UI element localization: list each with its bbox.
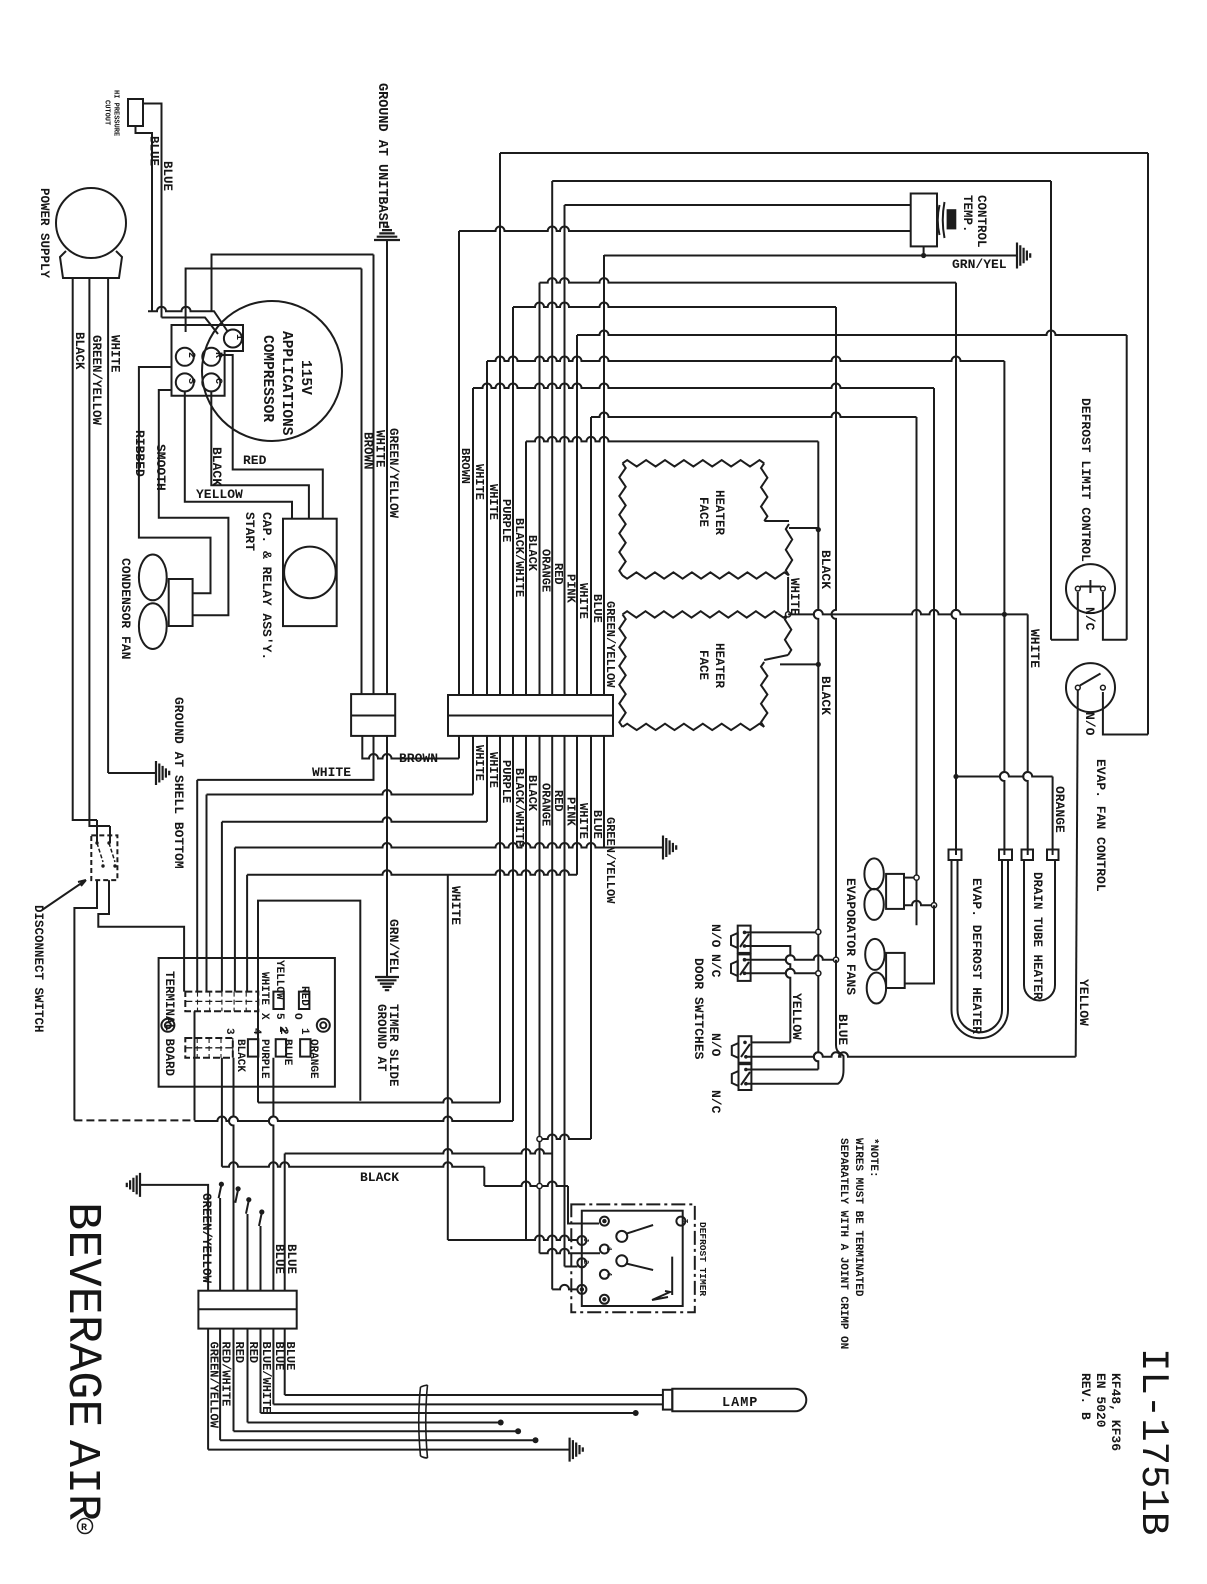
wire green/yellow bus xyxy=(603,255,605,695)
timer terminal 4 xyxy=(600,1270,609,1279)
row pink to timer 2 xyxy=(565,1266,578,1268)
terminal 1 xyxy=(224,330,242,348)
svg-text:HEATER: HEATER xyxy=(712,643,726,689)
harness line red 1 xyxy=(234,1430,516,1432)
svg-text:1: 1 xyxy=(298,1028,310,1035)
wire blue A to compressor terminal 1 xyxy=(148,307,228,332)
wire brown bus riser xyxy=(458,736,460,759)
rail blue xyxy=(591,413,917,418)
lamp body xyxy=(672,1389,806,1412)
svg-text:WHITE: WHITE xyxy=(312,765,351,780)
svg-text:N/C: N/C xyxy=(708,954,723,978)
compressor terminal box xyxy=(172,325,244,396)
wire white bus 2 xyxy=(486,361,488,695)
wire white1 below xyxy=(472,736,474,795)
temp control sensor xyxy=(938,202,945,238)
terminal S xyxy=(176,373,194,391)
evap defrost heater terminals xyxy=(949,850,962,861)
row D ground arm xyxy=(604,847,663,849)
power supply plug xyxy=(56,188,126,258)
svg-text:RED: RED xyxy=(551,790,565,812)
wire brown compressor-2 row xyxy=(186,269,362,333)
row white/black to timer J xyxy=(448,1236,578,1240)
svg-text:N/O: N/O xyxy=(708,1033,723,1057)
compressor circle xyxy=(202,301,342,441)
disconnect switch arrow xyxy=(42,880,86,910)
svg-text:BLACK: BLACK xyxy=(525,775,539,812)
N/C switch xyxy=(1066,564,1115,613)
svg-text:BLUE: BLUE xyxy=(281,1039,293,1066)
terminal C xyxy=(202,373,220,391)
wire green/yellow timer slide xyxy=(386,736,388,977)
svg-text:SMOOTH: SMOOTH xyxy=(153,444,168,491)
wire red from R to cap xyxy=(220,355,323,519)
svg-text:HEATER: HEATER xyxy=(712,490,726,536)
row D green/yellow to ground xyxy=(235,843,604,848)
timer terminal T xyxy=(676,1217,685,1226)
ground symbol shell bottom xyxy=(156,761,169,785)
wire blue A from cutout xyxy=(136,126,153,311)
defrost timer inner box xyxy=(582,1211,683,1306)
svg-text:RED: RED xyxy=(298,986,310,1006)
svg-text:WHITE: WHITE xyxy=(472,464,486,500)
harness wire RED xyxy=(233,1329,235,1432)
wire blue B from cutout xyxy=(143,104,162,318)
wire black from terminal 3 xyxy=(221,1058,223,1167)
terminal board mounting holes xyxy=(161,1019,174,1032)
rail black to face heaters xyxy=(526,437,818,442)
fan1 wire bottom xyxy=(904,901,934,906)
door switch C xyxy=(739,1036,752,1063)
svg-text:2: 2 xyxy=(185,352,196,358)
harness line blue/white xyxy=(261,1412,634,1414)
svg-text:N/O: N/O xyxy=(708,924,723,948)
connector block left xyxy=(351,694,395,736)
svg-text:O: O xyxy=(291,1013,303,1020)
condensor fan motor xyxy=(169,579,193,626)
harness line green/yellow to ground xyxy=(208,1449,569,1451)
wire green/yellow below xyxy=(603,736,605,848)
N/O switch xyxy=(1066,663,1115,712)
row orange to timer T xyxy=(484,1182,568,1186)
svg-text:WHITE: WHITE xyxy=(486,752,500,788)
timer terminal dark 3 xyxy=(600,1295,609,1304)
svg-text:BLUE: BLUE xyxy=(147,136,161,166)
cap and relay assembly box xyxy=(283,519,337,626)
svg-text:WHITE: WHITE xyxy=(448,886,463,925)
defrost timer outer dashed box xyxy=(571,1204,695,1312)
wire strip to dashed line xyxy=(194,1011,196,1120)
svg-text:4: 4 xyxy=(250,1028,262,1035)
rail black/white xyxy=(513,303,836,308)
wire purple bus xyxy=(499,153,501,695)
ground symbol at unitbase xyxy=(374,227,400,240)
timer terminal J xyxy=(577,1236,586,1245)
temp control box xyxy=(911,194,937,247)
svg-text:FACE: FACE xyxy=(696,650,710,680)
svg-text:GREEN/YELLOW: GREEN/YELLOW xyxy=(603,601,617,688)
svg-text:ORANGE: ORANGE xyxy=(539,783,553,826)
timer terminal 1 xyxy=(600,1245,609,1254)
svg-text:YELLOW: YELLOW xyxy=(273,960,285,1000)
svg-text:BROWN: BROWN xyxy=(399,751,438,766)
harness line blue to lamp xyxy=(273,1403,663,1405)
terminal blocks lower xyxy=(248,1039,258,1056)
wires below disconnect xyxy=(74,880,97,1120)
svg-text:BLACK/WHITE: BLACK/WHITE xyxy=(512,518,526,597)
face heater 2 xyxy=(619,611,791,730)
wire green/yellow from power supply xyxy=(89,278,110,826)
svg-text:BLUE/WHITE: BLUE/WHITE xyxy=(259,1342,273,1414)
wire red bus xyxy=(551,181,553,695)
rail white2 xyxy=(487,357,1004,362)
svg-text:GROUND AT UNITBASE: GROUND AT UNITBASE xyxy=(374,83,389,229)
wire black below xyxy=(525,736,527,1240)
rail green/yellow to ground xyxy=(604,255,1017,257)
svg-text:DISCONNECT SWITCH: DISCONNECT SWITCH xyxy=(31,905,45,1033)
svg-text:BROWN: BROWN xyxy=(458,448,472,484)
svg-text:RED: RED xyxy=(243,453,267,468)
rail white3 xyxy=(577,331,1127,336)
svg-text:BLUE: BLUE xyxy=(283,1342,297,1371)
svg-text:GREEN/YELLOW: GREEN/YELLOW xyxy=(89,335,103,426)
svg-text:WIRES MUST BE TERMINATED: WIRES MUST BE TERMINATED xyxy=(852,1138,864,1297)
ground symbol grn/yel right xyxy=(1017,243,1030,269)
svg-text:KF48, KF36: KF48, KF36 xyxy=(1108,1373,1123,1451)
svg-text:PURPLE: PURPLE xyxy=(499,499,513,542)
svg-text:HI PRESSURE: HI PRESSURE xyxy=(112,90,120,136)
ground symbol lamp harness xyxy=(570,1438,583,1462)
svg-text:BLUE: BLUE xyxy=(590,594,604,623)
main connector block xyxy=(448,695,613,736)
wire door B top to blue xyxy=(745,955,837,959)
door switch B xyxy=(738,954,751,981)
wire pink below xyxy=(564,736,566,1267)
row black to timer area xyxy=(222,1162,484,1167)
svg-text:GROUND AT: GROUND AT xyxy=(374,1004,388,1072)
svg-text:PURPLE: PURPLE xyxy=(258,1039,270,1079)
svg-text:GREEN/YELLOW: GREEN/YELLOW xyxy=(386,428,400,519)
timer terminal dark 1 xyxy=(600,1217,609,1226)
terminal board outer box xyxy=(159,958,335,1087)
svg-text:CUTOUT: CUTOUT xyxy=(103,100,111,125)
rail purple top xyxy=(500,152,1148,154)
wire black from C to cap xyxy=(211,391,309,518)
wire yellow from N/O xyxy=(1076,690,1078,1057)
svg-text:1: 1 xyxy=(604,1247,612,1251)
svg-text:PURPLE: PURPLE xyxy=(499,760,513,803)
harness wire GREEN/YELLOW xyxy=(207,1329,209,1450)
ground at timer slide loop xyxy=(258,1098,500,1103)
evaporator fan 1 blades xyxy=(864,858,883,889)
terminal R xyxy=(202,348,220,366)
svg-text:BLUE: BLUE xyxy=(590,810,604,839)
wire white2 below xyxy=(486,736,488,822)
svg-text:SEPARATELY WITH A JOINT CRIMP: SEPARATELY WITH A JOINT CRIMP ON xyxy=(837,1138,849,1349)
terminated wire stubs xyxy=(219,1186,222,1198)
svg-text:WHITE: WHITE xyxy=(472,745,486,781)
wire from door A top to black xyxy=(745,931,819,933)
junction rows orange blue xyxy=(540,1135,592,1140)
door switch A xyxy=(738,926,751,953)
svg-text:PINK: PINK xyxy=(564,797,578,827)
row white from face heater 2 xyxy=(788,610,1028,615)
wire white compressor-1 row xyxy=(212,255,374,312)
wire door B bottom to black xyxy=(745,969,819,973)
svg-text:BLACK: BLACK xyxy=(209,447,224,486)
svg-text:DRAIN TUBE HEATER: DRAIN TUBE HEATER xyxy=(1030,872,1044,1000)
svg-text:BROWN: BROWN xyxy=(361,432,375,470)
svg-text:DOOR SWITCHES: DOOR SWITCHES xyxy=(691,958,706,1060)
svg-text:GREEN/YELLOW: GREEN/YELLOW xyxy=(207,1342,221,1429)
svg-text:RED: RED xyxy=(246,1342,260,1364)
wire orange bus xyxy=(539,283,541,695)
svg-text:GREEN/YELLOW: GREEN/YELLOW xyxy=(199,1193,213,1284)
svg-text:ORANGE: ORANGE xyxy=(307,1039,319,1079)
svg-text:WHITE: WHITE xyxy=(373,430,387,468)
wire blue terminal to connector xyxy=(269,1058,274,1291)
rail orange xyxy=(540,278,957,283)
svg-text:N/O: N/O xyxy=(1082,712,1097,736)
row E white xyxy=(247,870,577,875)
svg-text:DEFROST LIMIT CONTROL: DEFROST LIMIT CONTROL xyxy=(1078,398,1093,562)
cap and relay circle xyxy=(284,547,336,599)
rail brown to temp control xyxy=(459,227,911,232)
svg-text:BEVERAGE: BEVERAGE xyxy=(55,1202,108,1428)
lamp collar xyxy=(663,1390,672,1410)
svg-text:BLACK: BLACK xyxy=(360,1170,399,1185)
condensor fan blades xyxy=(139,555,167,601)
svg-text:IL-1751B: IL-1751B xyxy=(1131,1348,1175,1535)
svg-text:TIMER SLIDE: TIMER SLIDE xyxy=(386,1004,400,1087)
svg-text:WHITE: WHITE xyxy=(576,803,590,839)
wire blue B horizontal xyxy=(162,318,219,335)
svg-text:START: START xyxy=(242,512,257,551)
wire yellow door A to C xyxy=(745,946,791,1042)
wire white bus 3 xyxy=(576,335,578,695)
svg-text:WHITE: WHITE xyxy=(258,972,270,1005)
svg-text:4: 4 xyxy=(604,1272,612,1276)
svg-text:GRN/YEL: GRN/YEL xyxy=(952,257,1007,272)
svg-text:POWER SUPPLY: POWER SUPPLY xyxy=(37,188,51,279)
svg-text:DEFROST TIMER: DEFROST TIMER xyxy=(697,1222,708,1296)
timer internal wire xyxy=(652,1257,672,1300)
evap defrost heater element xyxy=(952,860,1009,1038)
svg-text:CONTROL: CONTROL xyxy=(974,195,988,248)
evaporator fan 1 motor xyxy=(886,874,904,909)
svg-text:WHITE: WHITE xyxy=(787,578,801,616)
svg-text:GRN/YEL: GRN/YEL xyxy=(386,919,401,974)
svg-text:BLACK: BLACK xyxy=(72,332,86,370)
svg-text:GREEN/YELLOW: GREEN/YELLOW xyxy=(603,817,617,904)
svg-text:5: 5 xyxy=(273,1013,285,1020)
timer cam 2 xyxy=(616,1255,627,1266)
svg-text:S: S xyxy=(185,378,196,384)
wire white from power supply xyxy=(107,278,109,773)
harness line blue to lamp 2 xyxy=(285,1394,663,1396)
svg-text:2: 2 xyxy=(581,1260,589,1264)
svg-text:BLUE: BLUE xyxy=(272,1244,286,1274)
wire ribbed xyxy=(139,367,211,593)
svg-text:LAMP: LAMP xyxy=(722,1396,758,1411)
svg-text:WHITE: WHITE xyxy=(576,583,590,619)
door switch D xyxy=(739,1064,752,1090)
wire green/yellow unitbase ground down to connector xyxy=(386,240,388,694)
hi pressure cutout switch xyxy=(128,99,143,126)
svg-text:GROUND AT SHELL BOTTOM: GROUND AT SHELL BOTTOM xyxy=(171,697,186,869)
svg-text:BLACK: BLACK xyxy=(818,550,833,589)
svg-text:WHITE: WHITE xyxy=(1027,629,1042,668)
svg-text:*NOTE:: *NOTE: xyxy=(867,1138,879,1178)
timer terminal 2 xyxy=(577,1258,586,1267)
svg-text:BLACK: BLACK xyxy=(234,1039,246,1072)
disconnect switch box xyxy=(91,835,117,880)
harness line red/white xyxy=(220,1439,533,1441)
wire white3 below xyxy=(576,736,578,875)
bottom connector block xyxy=(198,1291,296,1329)
svg-text:BLACK: BLACK xyxy=(818,676,833,715)
wire black face heater vertical xyxy=(814,441,819,1069)
evaporator fan 2 blades xyxy=(865,939,884,970)
svg-text:BLUE: BLUE xyxy=(160,161,174,191)
svg-text:BLUE: BLUE xyxy=(284,1244,298,1274)
wire black bus xyxy=(525,441,527,695)
terminal 2 xyxy=(176,348,194,366)
drain tube heater terminals xyxy=(1022,850,1034,861)
ground at timer slide ground symbol xyxy=(375,977,399,990)
row blue/white connector xyxy=(285,1149,553,1154)
temp control ground stub xyxy=(923,246,925,255)
svg-text:TERMINAL BOARD: TERMINAL BOARD xyxy=(162,971,176,1077)
cable clamp xyxy=(419,1385,428,1458)
svg-text:J: J xyxy=(581,1238,589,1242)
drain tube heater element xyxy=(1024,860,1055,1001)
wire brown bus xyxy=(458,231,460,695)
svg-text:RED: RED xyxy=(232,1342,246,1364)
svg-text:PINK: PINK xyxy=(564,574,578,604)
svg-text:ORANGE: ORANGE xyxy=(1052,786,1067,833)
wire yellow horizontal bottom xyxy=(746,1052,1076,1057)
wire black from power supply xyxy=(73,278,97,820)
wire yellow from S to cap xyxy=(185,391,292,518)
row orange to timer 1 xyxy=(540,1249,601,1254)
svg-text:APPLICATIONS: APPLICATIONS xyxy=(278,331,294,436)
face heater 1 xyxy=(619,460,792,579)
svg-text:RED/WHITE: RED/WHITE xyxy=(219,1342,233,1407)
wire black/white bus xyxy=(512,307,514,695)
svg-text:115V: 115V xyxy=(297,360,313,395)
terminal strip lower xyxy=(185,1038,233,1058)
wire brown below connector xyxy=(362,736,459,759)
shell bottom ground wire xyxy=(108,772,156,774)
harness wire BLUE xyxy=(284,1329,286,1395)
row red to timer terminal xyxy=(552,1285,577,1289)
harness wire RED/WHITE xyxy=(219,1329,221,1441)
svg-text:WHITE: WHITE xyxy=(108,335,122,373)
timer cam 1 xyxy=(616,1231,627,1242)
wire white between face heaters xyxy=(787,577,789,614)
wire red below xyxy=(551,736,553,1290)
svg-text:YELLOW: YELLOW xyxy=(1076,979,1091,1026)
svg-text:FACE: FACE xyxy=(696,497,710,527)
row to black/white xyxy=(195,1117,514,1122)
svg-text:EVAPORATOR FANS: EVAPORATOR FANS xyxy=(843,878,858,995)
wire white bus 1 xyxy=(472,388,474,695)
dashed enclosure bottom xyxy=(74,1119,194,1121)
wire blue bus xyxy=(590,417,592,695)
rail white1 xyxy=(473,384,934,389)
svg-text:T: T xyxy=(680,1219,688,1223)
svg-text:AIR: AIR xyxy=(56,1440,107,1521)
svg-text:BLACK: BLACK xyxy=(525,535,539,572)
orange branch row xyxy=(956,772,1053,777)
wire white below connector row A xyxy=(197,736,373,780)
svg-text:EVAP. FAN CONTROL: EVAP. FAN CONTROL xyxy=(1093,759,1108,892)
svg-text:ORANGE: ORANGE xyxy=(539,549,553,592)
svg-text:RED: RED xyxy=(551,563,565,585)
terminal strip upper xyxy=(185,992,258,1012)
svg-text:N/C: N/C xyxy=(708,1090,723,1114)
wire smooth xyxy=(159,390,229,615)
harness line red 2 xyxy=(248,1422,499,1424)
wire pink bus xyxy=(564,205,566,695)
evaporator fan 2 motor xyxy=(886,953,905,988)
svg-text:TEMP.: TEMP. xyxy=(960,195,974,233)
svg-text:1: 1 xyxy=(233,334,244,340)
wire door D top to black end xyxy=(746,1069,818,1071)
harness wire BLUE xyxy=(272,1329,274,1405)
harness wire RED xyxy=(247,1329,249,1423)
wire purple below xyxy=(499,736,501,1103)
svg-text:CONDENSOR FAN: CONDENSOR FAN xyxy=(118,558,133,659)
svg-text:C: C xyxy=(212,378,223,384)
svg-text:R: R xyxy=(81,1523,87,1534)
svg-text:WHITE: WHITE xyxy=(486,484,500,520)
face heater 2 tap to black xyxy=(780,663,818,665)
svg-text:EN 5020: EN 5020 xyxy=(1093,1373,1108,1428)
face heater 1 tap to black xyxy=(789,527,818,529)
fan1 wire top xyxy=(904,877,917,879)
svg-text:RIBBED: RIBBED xyxy=(132,430,147,477)
svg-text:3: 3 xyxy=(223,1028,235,1035)
wire blue vertical door xyxy=(746,960,844,1084)
ground bottom left xyxy=(127,1173,140,1197)
wire white evap defrost right leg xyxy=(1000,361,1005,855)
svg-text:EVAP. DEFROST HEATER: EVAP. DEFROST HEATER xyxy=(969,878,984,1034)
wire blue to evap fan 1 xyxy=(916,417,918,925)
svg-text:BLACK/WHITE: BLACK/WHITE xyxy=(512,768,526,847)
svg-text:CAP. & RELAY ASS'Y.: CAP. & RELAY ASS'Y. xyxy=(259,512,274,660)
svg-text:YELLOW: YELLOW xyxy=(196,487,243,502)
svg-text:BLUE: BLUE xyxy=(835,1014,850,1045)
fan2 wire xyxy=(905,905,934,983)
row C white xyxy=(222,817,487,822)
svg-text:N/C: N/C xyxy=(1082,607,1097,631)
rail red xyxy=(552,180,1051,182)
svg-text:YELLOW: YELLOW xyxy=(789,993,804,1040)
svg-text:COMPRESSOR: COMPRESSOR xyxy=(259,335,275,422)
timer terminal dark 2 xyxy=(577,1285,586,1294)
wire white long vertical xyxy=(447,875,449,1240)
svg-text:X: X xyxy=(258,1013,270,1020)
wire black/white vertical right xyxy=(832,307,836,960)
ground symbol green/yellow bus xyxy=(663,836,676,860)
wire black/white below xyxy=(512,736,514,1121)
wire white to evap fans xyxy=(933,388,935,905)
row B white xyxy=(207,790,474,795)
wire blue below xyxy=(590,736,592,1139)
harness wire BLUE/WHITE xyxy=(260,1329,262,1413)
